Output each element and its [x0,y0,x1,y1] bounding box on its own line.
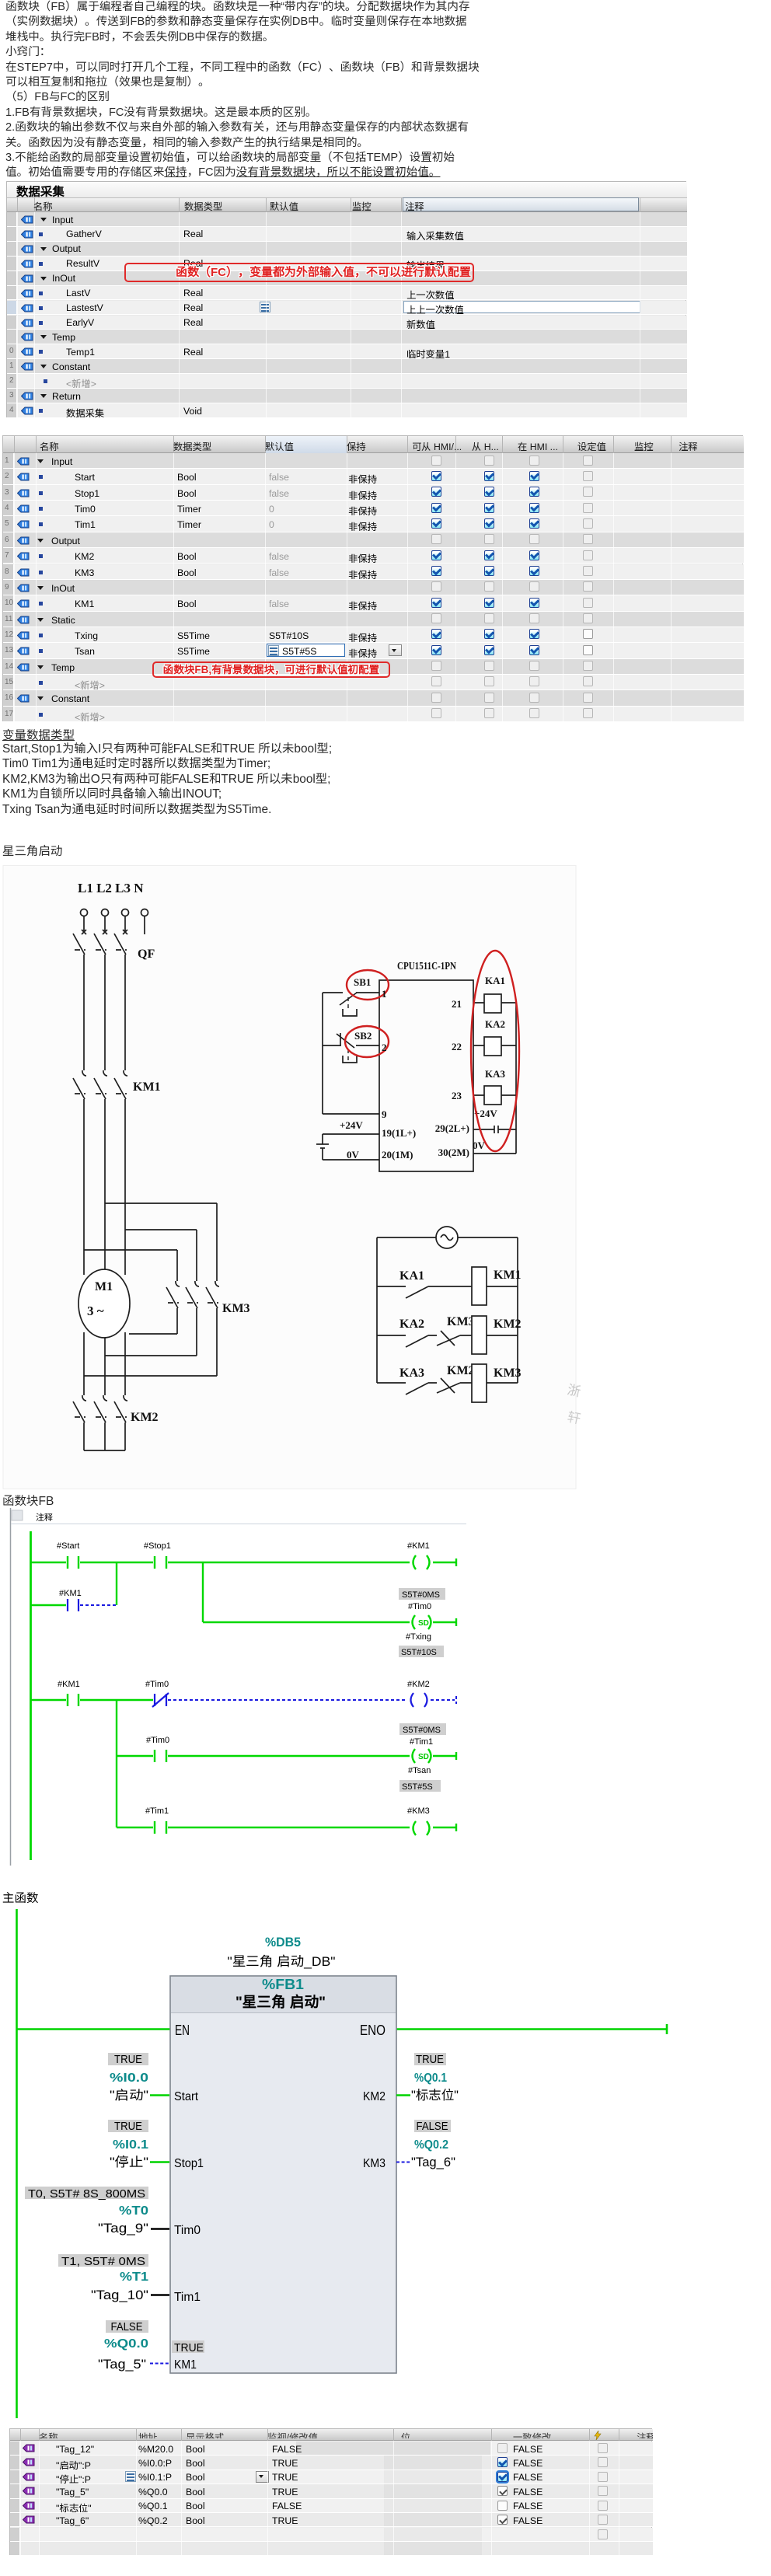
svg-text:TRUE: TRUE [174,2341,204,2354]
svg-text:30(2M): 30(2M) [438,1147,469,1158]
wire pin21 to KA1 [473,1002,516,1004]
svg-text:KM2: KM2 [447,1364,475,1377]
wire SB1 row [323,992,379,993]
svg-text:1: 1 [382,988,387,1000]
delta tap wire L2 to KM3 pole 3 [105,1203,217,1281]
variable data-type notes [2,726,75,743]
relay coil KA1 [484,994,501,1013]
SB1 actuator dashed rod [347,997,349,1008]
contactor coil KM3 [472,1364,487,1402]
svg-text:%Q0.2: %Q0.2 [414,2138,448,2152]
svg-text:TRUE: TRUE [114,2054,142,2066]
svg-text:Tim0: Tim0 [174,2224,201,2237]
wires QF to KM1 [84,955,125,1070]
svg-text:Tim1: Tim1 [174,2291,201,2304]
wire SB2 row [323,1045,379,1046]
svg-text:KA2: KA2 [485,1018,505,1030]
input Tim0 [25,2187,148,2199]
svg-text:#KM2: #KM2 [407,1680,430,1689]
main OB1 function-block-call diagram [0,1889,771,2427]
contactor KM3 blades [166,1287,218,1308]
svg-text:#KM1: #KM1 [59,1589,82,1598]
contactor KM3 linkage (dashed) [168,1302,218,1304]
svg-text:KM1: KM1 [133,1080,161,1094]
svg-text:%T0: %T0 [119,2204,148,2218]
contactor KM1 linkage (dashed) [75,1093,127,1094]
AC source G1 [436,1227,458,1248]
table 1: FC interface 数据采集 [6,181,686,417]
SB2 actuator dashed rod [347,1049,349,1060]
svg-text:Stop1: Stop1 [174,2157,204,2170]
wire pin29 with contact gap [473,1129,516,1130]
power rail network 1 [30,1531,32,1860]
x marks on phase stems [82,930,127,934]
svg-text:#Tsan: #Tsan [408,1766,431,1775]
svg-text:Start: Start [174,2090,199,2103]
control circuit side bus wires [377,1237,518,1383]
svg-text:SB1: SB1 [354,976,371,988]
wire pin30 to bus [473,1129,516,1154]
rung 1 wire [30,1559,456,1566]
network frame [10,1508,12,1866]
svg-text:20(1M): 20(1M) [382,1149,413,1161]
svg-text:#Start: #Start [57,1541,79,1551]
svg-text:T1, S5T# 0MS: T1, S5T# 0MS [61,2255,145,2268]
svg-text:#KM3: #KM3 [407,1806,430,1816]
relay coil KA3 [484,1086,501,1105]
output common bus wire [515,1003,517,1129]
svg-text:#KM1: #KM1 [407,1541,430,1551]
svg-text:#Txing: #Txing [406,1632,431,1642]
svg-text:T0, S5T# 8S_800MS: T0, S5T# 8S_800MS [28,2187,145,2201]
svg-text:%Q0.1: %Q0.1 [414,2072,447,2085]
svg-text:S5T#10S: S5T#10S [401,1648,437,1657]
svg-text:主函数: 主函数 [2,1892,39,1905]
motor M1 [78,1269,130,1338]
svg-text:#Tim0: #Tim0 [145,1680,169,1689]
svg-text:KM3: KM3 [447,1315,475,1328]
wires KM1 down to motor [84,1099,125,1275]
svg-text:M1: M1 [95,1280,113,1293]
timer labels [399,1588,445,1600]
contactor KM3 fixed-contact hooks [176,1281,219,1286]
svg-text:%I0.1: %I0.1 [113,2138,148,2152]
svg-text:19(1L+): 19(1L+) [382,1127,416,1139]
svg-text:#Tim1: #Tim1 [145,1806,169,1816]
svg-text:+24V: +24V [340,1119,363,1131]
breaker QF blades (3 poles) [73,934,126,955]
red ellipse around SB2 [345,1026,389,1057]
wire pin23 to KA3 [473,1094,516,1096]
top paragraph text [5,0,771,181]
red annotation over table 1 [124,263,474,282]
star point wires [84,1422,125,1450]
svg-text:KA3: KA3 [485,1068,506,1080]
branch vertical [116,1700,117,1827]
svg-text:"Tag_5": "Tag_5" [98,2358,146,2372]
svg-text:#KM1: #KM1 [58,1680,80,1689]
input Tim1 [58,2254,148,2267]
table 2: FB interface [2,435,743,721]
svg-text:S5T#5S: S5T#5S [402,1782,433,1792]
svg-text:CPU1511C-1PN: CPU1511C-1PN [397,960,456,972]
rung 2 wire with KA2 NO and KM3 NC contacts [377,1331,518,1347]
svg-text:KA1: KA1 [485,975,505,986]
supply wires +24V / 0V [323,1134,379,1160]
svg-text:2: 2 [382,1042,387,1053]
svg-text:"启动": "启动" [110,2089,148,2103]
red ellipse around KA1..KA3 column [471,951,519,1151]
breaker QF linkage (dashed) [75,949,127,951]
input Stop1 [108,2120,148,2132]
svg-text:TRUE: TRUE [114,2120,142,2133]
contactor KM1 fixed-contact hooks [82,1070,127,1076]
delta tap wire L1 to KM3 pole 1 [84,1250,177,1281]
red ellipse around SB1 [347,970,389,1000]
contactor KM2 linkage (dashed) [75,1416,127,1418]
blue coil #KM2 [411,1693,427,1707]
contactor KM2 blades [73,1401,126,1422]
svg-text:KM2: KM2 [363,2090,385,2103]
svg-text:KA3: KA3 [399,1367,424,1380]
svg-text:%I0.0: %I0.0 [110,2072,148,2085]
svg-text:"星三角 启动": "星三角 启动" [235,1994,326,2011]
contactor KM1 blades [73,1078,126,1099]
ENO wire [396,2024,667,2034]
svg-text:SD: SD [418,1619,429,1628]
SD branch vertical [203,1562,456,1626]
control circuit top bus wire [377,1237,518,1238]
svg-text:L1 L2 L3 N: L1 L2 L3 N [78,881,144,895]
star-delta power & PLC wiring schematic [0,855,771,1494]
svg-text:%FB1: %FB1 [262,1977,304,1992]
rung 3 wire with KA3 NO and KM2 NC contacts [377,1378,518,1394]
svg-text:%Q0.0: %Q0.0 [104,2337,148,2351]
svg-text:S5T#0MS: S5T#0MS [402,1590,440,1600]
svg-text:SB2: SB2 [354,1030,372,1042]
SB2 actuator cup [343,1056,357,1063]
svg-text:%DB5: %DB5 [265,1935,301,1949]
svg-text:注释: 注释 [36,1513,53,1523]
svg-text:#Tim0: #Tim0 [146,1736,169,1745]
svg-text:KA1: KA1 [399,1269,424,1283]
svg-text:"标志位": "标志位" [411,2088,459,2103]
FB ladder logic networks [0,1508,771,1870]
battery short plate [320,1147,325,1149]
svg-text:22: 22 [452,1041,462,1052]
svg-text:9: 9 [382,1108,387,1120]
svg-text:KM3: KM3 [494,1367,522,1380]
supply terminal L1 [81,909,88,916]
svg-text:KM1: KM1 [494,1269,522,1282]
svg-text:#Tim1: #Tim1 [410,1737,433,1747]
svg-text:KM2: KM2 [131,1411,159,1424]
svg-text:EN: EN [175,2023,190,2038]
svg-text:SD: SD [418,1753,429,1761]
svg-text:TRUE: TRUE [416,2054,444,2066]
svg-text:S5T#0MS: S5T#0MS [403,1726,441,1735]
svg-text:"停止": "停止" [110,2155,148,2169]
pushbutton SB2 (NC) bar and blade [337,1033,354,1048]
left power rail [16,1909,18,2418]
svg-text:0V: 0V [347,1149,360,1161]
supply terminal N [141,909,148,916]
svg-text:#Stop1: #Stop1 [144,1541,171,1551]
svg-text:"Tag_6": "Tag_6" [411,2155,455,2169]
svg-text:"Tag_10": "Tag_10" [91,2288,148,2302]
red annotation over table 2 [152,661,390,678]
FB call box [170,1976,396,2373]
svg-text:"星三角 启动_DB": "星三角 启动_DB" [228,1954,336,1969]
contactor coil KM2 [472,1316,487,1354]
supply terminal L2 [102,909,109,916]
svg-text:21: 21 [452,998,462,1010]
battery long plate [316,1143,329,1145]
pushbutton SB1 (NO) blade [340,993,357,1005]
input KM1 [106,2320,148,2333]
svg-text:FALSE: FALSE [417,2120,448,2133]
svg-text:"Tag_9": "Tag_9" [98,2222,148,2236]
svg-text:%T1: %T1 [120,2271,148,2284]
delta tap wire L3 to KM3 pole 2 [125,1230,197,1281]
svg-text:#Tim0: #Tim0 [408,1602,431,1611]
EN wire [16,2028,170,2030]
wire stems from terminals [84,916,145,934]
svg-text:0V: 0V [473,1140,486,1151]
svg-text:KM1: KM1 [174,2358,197,2372]
svg-text:FALSE: FALSE [111,2321,143,2333]
SD coil [413,1615,431,1629]
branch join vertical [116,1562,117,1605]
svg-text:29(2L+): 29(2L+) [435,1122,469,1134]
svg-text:ENO: ENO [360,2023,385,2038]
input Start [108,2053,148,2065]
svg-text:QF: QF [138,948,155,961]
supply terminal L3 [122,909,129,916]
svg-text:KM2: KM2 [494,1318,522,1331]
left common bus wire to pin 9 [323,993,379,1114]
svg-text:KM3: KM3 [363,2157,385,2170]
svg-text:KA2: KA2 [399,1318,424,1331]
PLC U1 body [379,980,473,1171]
watch table [9,2428,652,2555]
svg-text:KM3: KM3 [222,1302,250,1315]
wire pin22 to KA2 [473,1045,516,1046]
NC contact #Tim0 blue [152,1693,169,1707]
rung 1 wire with KA1 NO contact [377,1286,518,1298]
svg-text:23: 23 [452,1090,462,1101]
contactor KM2 fixed-contact hooks [82,1395,127,1401]
relay coil KA2 [484,1037,501,1056]
wires motor to KM2 [84,1332,125,1395]
KM3 return wires to motor windings [177,1308,217,1376]
svg-text:3 ~: 3 ~ [87,1304,104,1318]
contactor coil KM1 [472,1267,487,1305]
SB1 actuator cup [343,1009,357,1016]
